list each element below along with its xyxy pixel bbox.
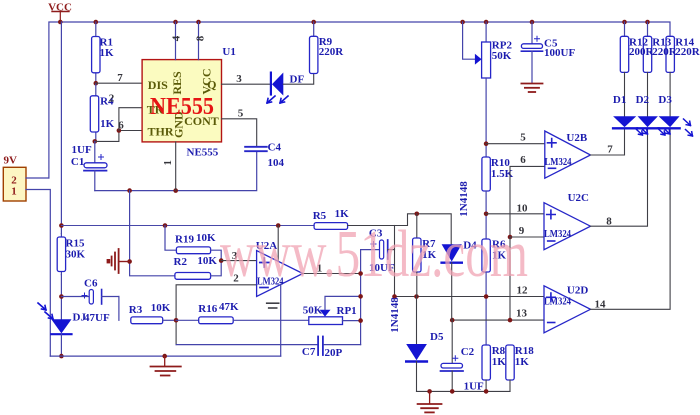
wire Q pin3 to DF (222, 83, 271, 85)
svg-text:RES: RES (170, 71, 184, 95)
resistor R10 1.5K (482, 157, 514, 239)
node dot rail x130 (127, 188, 132, 193)
wire U2C pin9 (510, 236, 544, 238)
node bus dot pin4 (173, 20, 178, 25)
led D3 (658, 94, 692, 136)
wire bottom-left ground rail (50, 355, 280, 357)
node dot chassis tap (127, 259, 132, 264)
wire U2A pin11 stub down (280, 285, 282, 356)
node bus dot pin8 (196, 20, 201, 25)
svg-text:7: 7 (117, 72, 123, 84)
wire x360 column (360, 250, 362, 345)
svg-text:RP1: RP1 (337, 305, 357, 317)
svg-text:1K: 1K (100, 47, 115, 59)
resistor R6 1K (482, 239, 507, 346)
svg-text:1: 1 (162, 160, 174, 166)
svg-text:C2: C2 (461, 346, 475, 358)
node dot R7/D5 tap (414, 294, 419, 299)
svg-text:DJ: DJ (73, 312, 87, 324)
op-amp U2B LM324 (545, 131, 591, 178)
ground symbol bottom-left (151, 356, 181, 375)
resistor R8 1K (482, 345, 506, 391)
svg-text:47K: 47K (219, 301, 239, 313)
svg-text:1K: 1K (515, 356, 530, 368)
capacitor C6 47UF (61, 278, 119, 325)
node VCC junction dot (58, 20, 63, 25)
svg-text:NE555: NE555 (187, 147, 219, 159)
capacitor C1 1UF (71, 141, 107, 190)
wire U2A pin2 (176, 285, 257, 345)
svg-text:1N4148: 1N4148 (389, 297, 401, 333)
svg-text:R2: R2 (174, 256, 188, 268)
svg-text:30K: 30K (66, 249, 86, 261)
node dot DJ bottom (59, 354, 64, 359)
node bus dot R12 (622, 20, 627, 25)
capacitor C5 100UF (521, 22, 575, 83)
node dot R6 tap (484, 294, 489, 299)
svg-text:6: 6 (520, 154, 526, 166)
wire VCC pin8 (198, 22, 200, 60)
wire R15 bottom to DJ (60, 275, 62, 320)
wire THR net (95, 131, 142, 142)
wire NE555 bottom rail (95, 152, 257, 191)
svg-text:10K: 10K (151, 302, 171, 314)
svg-text:20P: 20P (325, 347, 343, 359)
wire 9V pin1 to ground rail (26, 190, 50, 357)
svg-text:VCC: VCC (200, 69, 214, 95)
svg-text:THR: THR (148, 125, 174, 139)
node dot pin10 tap (484, 212, 489, 217)
wire VCC left column x61 (60, 22, 62, 234)
led DF (267, 73, 304, 104)
svg-text:2: 2 (109, 93, 115, 105)
diode D5 1N4148 (406, 297, 444, 392)
node dot THR/TR junction (117, 128, 122, 133)
diode D4 1N4148 (442, 239, 478, 320)
node bus dot RP2 top (484, 20, 489, 25)
wire DIS pin7 (96, 82, 142, 84)
svg-text:R16: R16 (198, 303, 217, 315)
node bus dot R9 (311, 20, 316, 25)
node dot U2A pin3 junction (219, 258, 224, 263)
resistor R19 10K (165, 226, 221, 261)
led D1 (613, 94, 648, 135)
node dot x61 bias wire (59, 223, 64, 228)
resistor R1 1K (92, 22, 114, 83)
svg-text:C4: C4 (268, 142, 282, 154)
svg-text:U2C: U2C (568, 192, 589, 204)
wire CONT pin5 (222, 119, 257, 146)
svg-text:C1: C1 (71, 156, 84, 168)
svg-text:13: 13 (516, 308, 528, 320)
svg-text:D1: D1 (613, 94, 626, 106)
svg-text:220R: 220R (652, 46, 678, 58)
svg-text:50K: 50K (492, 50, 512, 62)
node dot D4/C2 tap (450, 318, 455, 323)
svg-text:LM324: LM324 (544, 228, 571, 240)
resistor R16 47K (176, 301, 309, 324)
wire feedback bottom / C7 net (176, 344, 317, 346)
svg-text:6: 6 (118, 119, 124, 131)
node dot pin5 tap (484, 141, 489, 146)
resistor R12 200R (620, 22, 654, 116)
wire U2B out pin7 (591, 130, 625, 156)
node bus dot RP2 wiper (460, 20, 465, 25)
svg-text:DIS: DIS (148, 78, 168, 92)
VCC power symbol (48, 2, 72, 23)
wire U2D out pin14 (591, 130, 671, 310)
node dot DIS junction (94, 81, 99, 86)
wire U2C pin10 (486, 213, 544, 215)
node dot R4 bottom / C1 top (93, 139, 98, 144)
resistor R13 220R (643, 22, 678, 116)
node dot ground tap (162, 354, 167, 359)
svg-text:3: 3 (236, 73, 242, 85)
wire U2C out pin8 (591, 130, 648, 227)
wire bottom middle rail (417, 390, 511, 392)
svg-text:220R: 220R (319, 46, 345, 58)
ground symbol C5 (521, 84, 542, 93)
chassis earth symbol (107, 249, 130, 273)
svg-text:D5: D5 (430, 331, 444, 343)
svg-text:1UF: 1UF (464, 380, 484, 392)
svg-text:1K: 1K (492, 356, 507, 368)
wire pin9-pin13 column (509, 237, 511, 320)
svg-text:R3: R3 (129, 304, 143, 316)
svg-text:200R: 200R (629, 46, 655, 58)
wire U2A pin3 (221, 260, 256, 262)
ground symbol bottom middle (418, 391, 442, 412)
capacitor C2 1UF (441, 320, 485, 392)
svg-text:104: 104 (268, 157, 285, 169)
node dot U2A out (358, 271, 363, 276)
resistor R2 10K (174, 255, 222, 279)
connector J 9V battery (3, 155, 26, 202)
wire RES pin4 (175, 22, 177, 60)
power marks U2A pin11 (267, 303, 279, 308)
node bus dot C5 (530, 20, 535, 25)
wire TR pin2 (119, 108, 142, 131)
svg-text:5: 5 (238, 108, 244, 120)
node bus dot R13 (645, 20, 650, 25)
svg-text:8: 8 (606, 215, 612, 227)
node dot rail C2 (450, 389, 455, 394)
svg-text:U1: U1 (222, 46, 235, 58)
svg-text:www.51dz.com: www.51dz.com (220, 217, 528, 291)
capacitor C4 104 (245, 142, 284, 170)
svg-text:7: 7 (607, 144, 613, 156)
node dot C6 tap (59, 294, 64, 299)
node dot RP1 right (358, 318, 363, 323)
potentiometer RP1 50K (303, 296, 361, 324)
wire VCC top bus (49, 22, 670, 178)
resistor R5 1K (313, 208, 349, 229)
resistor R15 30K (57, 234, 85, 275)
capacitor C7 20P (302, 337, 361, 360)
resistor R14 220R (666, 36, 700, 116)
resistor R4 1K (90, 83, 114, 141)
resistor R9 220R (310, 22, 345, 74)
wire U2D pin13 net (452, 319, 544, 321)
op-amp U2A LM324 (256, 240, 303, 296)
svg-text:47UF: 47UF (84, 312, 110, 324)
wire 9V pin2 to VCC riser (26, 177, 49, 179)
resistor R7 1K (413, 214, 437, 297)
node dot pin13 column tap (508, 318, 513, 323)
wire U2A output pin1 (303, 273, 361, 275)
svg-text:5: 5 (520, 131, 526, 143)
svg-text:10K: 10K (196, 232, 216, 244)
capacitor C3 10UF (361, 228, 395, 275)
wire C3 branch down (394, 226, 396, 297)
op-amp U2D LM324 (544, 285, 591, 333)
svg-text:LM324: LM324 (545, 156, 572, 168)
wire U2B pin5 (486, 143, 545, 145)
node dot rail GND pin (173, 188, 178, 193)
wire x129 column to R2 (130, 191, 175, 276)
svg-text:R19: R19 (175, 234, 194, 246)
svg-text:1: 1 (11, 186, 17, 198)
node dot R7 top (415, 212, 420, 217)
node bus dot R1 (94, 20, 99, 25)
node dot pin9 tap (508, 235, 513, 240)
op-amp U1 NE555 body (142, 46, 236, 159)
node dot U2A vplus tap on bias wire (276, 223, 281, 228)
node dot RP1 wiper (358, 294, 363, 299)
led D2 (636, 94, 670, 135)
svg-text:100UF: 100UF (544, 47, 575, 59)
svg-text:C7: C7 (302, 346, 316, 358)
svg-text:U2B: U2B (566, 132, 587, 144)
svg-text:220R: 220R (675, 46, 700, 58)
node dot rail R8 (484, 389, 489, 394)
wire GND pin1 (175, 142, 177, 191)
svg-text:D3: D3 (658, 94, 672, 106)
wire DF to R9 (283, 74, 313, 85)
node dot pin12 left end (392, 294, 397, 299)
wire U2B pin6 (510, 166, 545, 237)
wire bias net y225 to R5 (61, 225, 314, 227)
resistor R18 1K (506, 345, 534, 391)
svg-text:1UF: 1UF (72, 144, 92, 156)
svg-text:8: 8 (195, 35, 207, 41)
svg-text:14: 14 (595, 299, 607, 311)
node dot R3/R16 junction (174, 318, 179, 323)
svg-text:1K: 1K (100, 118, 115, 130)
wire U2A vplus stub (277, 226, 279, 262)
op-amp U2C LM324 (544, 192, 591, 250)
node dot rail gnd (427, 389, 432, 394)
wire U2D pin12 net (395, 296, 545, 298)
svg-text:50K: 50K (303, 305, 323, 317)
svg-text:10K: 10K (197, 255, 217, 267)
svg-text:D2: D2 (636, 94, 650, 106)
svg-text:10: 10 (517, 203, 529, 215)
svg-text:NE555: NE555 (150, 94, 214, 120)
wire R5 right jog to D4 (348, 214, 452, 245)
svg-text:1N4148: 1N4148 (458, 181, 470, 217)
potentiometer RP2 50K (463, 22, 513, 157)
svg-text:9V: 9V (4, 155, 18, 167)
svg-text:4: 4 (171, 35, 183, 41)
node dot R19 tap on bias wire (163, 223, 168, 228)
resistor R3 10K (129, 302, 176, 324)
photodiode DJ (38, 303, 86, 356)
svg-text:C6: C6 (84, 278, 98, 290)
